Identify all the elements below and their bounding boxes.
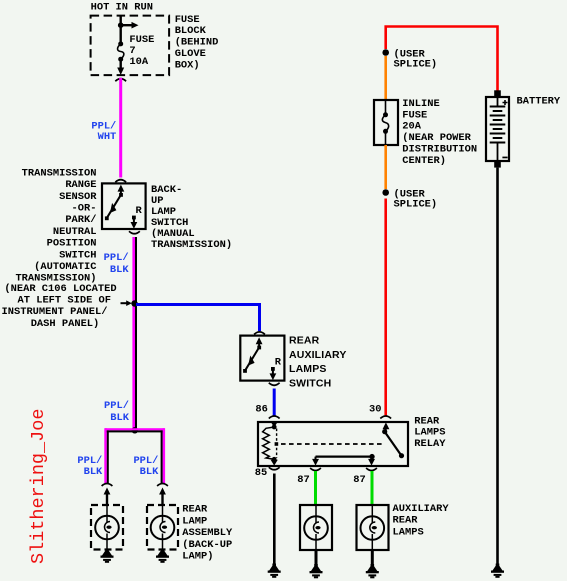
wire orange splice to fuse [384, 56, 387, 101]
svg-text:REAR: REAR [393, 515, 419, 527]
svg-text:SENSOR: SENSOR [59, 191, 97, 203]
svg-text:REAR: REAR [182, 504, 208, 516]
switch box back-up lamp switch [102, 183, 146, 229]
wire green pin 87 right [371, 471, 374, 505]
connector at fuse block output [115, 79, 126, 82]
ground aux right [366, 564, 379, 578]
svg-text:DASH PANEL): DASH PANEL) [31, 318, 100, 330]
node junction in fuse block [118, 22, 124, 28]
connector backup lamp left [102, 484, 113, 487]
svg-text:SWITCH: SWITCH [289, 377, 331, 389]
svg-text:30: 30 [369, 404, 381, 416]
svg-text:INSTRUMENT PANEL/: INSTRUMENT PANEL/ [2, 306, 108, 318]
switch R contact [132, 216, 136, 220]
connector at aux switch input [254, 332, 265, 335]
svg-text:(BEHIND: (BEHIND [175, 37, 219, 49]
svg-text:TRANSMISSION): TRANSMISSION) [151, 239, 232, 251]
svg-text:R: R [136, 205, 143, 217]
svg-text:-OR-: -OR- [72, 203, 97, 215]
switch common up arrow [120, 190, 122, 195]
switch R contact [271, 367, 275, 371]
connector backup lamp right [157, 484, 168, 487]
svg-text:R: R [275, 357, 282, 369]
relay box [258, 422, 408, 466]
wire PPL/WHT [119, 78, 122, 178]
svg-text:BATTERY: BATTERY [517, 96, 561, 108]
relay output bus [316, 456, 373, 458]
svg-text:Slithering_Joe: Slithering_Joe [28, 409, 49, 564]
svg-text:AT LEFT SIDE OF: AT LEFT SIDE OF [18, 295, 112, 307]
svg-text:SWITCH: SWITCH [59, 249, 96, 261]
svg-text:LAMP: LAMP [182, 515, 207, 527]
node user splice 1 [382, 49, 389, 56]
node user splice 2 [382, 189, 389, 196]
svg-text:RANGE: RANGE [65, 179, 96, 191]
battery plus [503, 100, 508, 105]
wire pin 85 to ground [273, 474, 276, 564]
wire blue branch [136, 305, 260, 332]
wire fuse to box bottom with down arrow [119, 59, 121, 68]
svg-text:BLK: BLK [110, 264, 129, 276]
fuse block dashed box [91, 16, 170, 76]
svg-text:NEUTRAL: NEUTRAL [53, 226, 97, 238]
wire branch arrow right [121, 24, 134, 26]
lamp bulb backup right [151, 516, 175, 540]
wire PPL/BLK vertical [132, 237, 135, 430]
svg-text:ASSEMBLY: ASSEMBLY [182, 527, 233, 539]
svg-text:POSITION: POSITION [47, 238, 97, 250]
node junction to aux switch [131, 300, 137, 306]
switch box rear auxiliary lamps switch [240, 336, 284, 381]
switch arm [245, 347, 259, 370]
svg-text:(BACK-UP: (BACK-UP [182, 539, 232, 551]
inline fuse element [385, 100, 387, 113]
lamp bulb backup left [95, 516, 119, 540]
svg-text:SPLICE): SPLICE) [394, 198, 438, 210]
wire feed inside fuse block [119, 16, 121, 42]
battery minus [502, 157, 507, 159]
lamp box backup right dashed [147, 505, 178, 550]
connector at switch input [115, 180, 126, 183]
connector at pin 86 [269, 416, 280, 419]
lamp bulb aux right [361, 516, 385, 540]
svg-text:AUXILIARY: AUXILIARY [393, 503, 450, 515]
fuse F7 element [118, 41, 123, 46]
connector at pin 87 right [366, 468, 377, 471]
svg-text:BLK: BLK [140, 466, 159, 478]
svg-text:CENTER): CENTER) [402, 155, 446, 167]
svg-text:AUXILIARY: AUXILIARY [289, 349, 347, 361]
lamp box aux left [300, 505, 332, 550]
connector at pin 87 left [310, 468, 321, 471]
node junction backup lamps [132, 427, 138, 433]
svg-text:LAMPS: LAMPS [414, 427, 445, 439]
svg-text:86: 86 [255, 404, 267, 416]
wire blue to pin 86 [273, 389, 276, 417]
svg-text:PPL/: PPL/ [104, 400, 129, 412]
ground for pin 85 [268, 564, 281, 578]
ground battery [491, 564, 504, 578]
svg-text:FUSE: FUSE [402, 109, 427, 121]
svg-text:TRANSMISSION: TRANSMISSION [22, 167, 97, 179]
ground aux left [310, 564, 323, 578]
svg-text:REAR: REAR [414, 415, 440, 427]
wire aux right lamp to ground [371, 550, 374, 564]
connector at pin 30 [380, 416, 391, 419]
inline fuse box [374, 100, 398, 145]
connector at pin 85 [269, 467, 280, 470]
lamp box aux right [357, 505, 389, 550]
svg-text:BLOCK: BLOCK [175, 25, 207, 37]
wire PPL/BLK right branch [163, 428, 166, 484]
svg-text:LAMPS: LAMPS [393, 526, 424, 538]
lamp box backup left dashed [91, 505, 123, 550]
svg-text:10A: 10A [129, 56, 148, 68]
wire battery to ground [496, 168, 499, 564]
wire orange fuse to splice 2 [384, 145, 387, 189]
svg-text:INLINE: INLINE [402, 98, 439, 110]
svg-text:LAMP): LAMP) [182, 551, 213, 563]
wire PPL/BLK horizontal branch [105, 428, 165, 430]
svg-text:BLK: BLK [110, 412, 129, 424]
switch arm [107, 195, 121, 218]
wire red to pin 30 [384, 199, 387, 417]
svg-text:20A: 20A [402, 121, 421, 133]
lamp bulb aux left [304, 516, 328, 540]
svg-text:(NEAR POWER: (NEAR POWER [402, 132, 471, 144]
ground backup left [101, 549, 114, 563]
svg-text:GLOVE: GLOVE [175, 48, 206, 60]
svg-text:BOX): BOX) [175, 60, 200, 72]
battery box [486, 97, 509, 161]
ground backup right [156, 549, 169, 563]
svg-text:(NEAR C106 LOCATED: (NEAR C106 LOCATED [4, 283, 116, 295]
svg-text:PARK/: PARK/ [65, 214, 96, 226]
svg-text:HOT IN RUN: HOT IN RUN [91, 2, 153, 14]
svg-text:PPL/: PPL/ [104, 252, 129, 264]
svg-text:WHT: WHT [98, 131, 117, 143]
relay coil [271, 422, 278, 428]
battery plates [497, 97, 499, 106]
connector at aux switch output [269, 383, 280, 386]
svg-text:7: 7 [129, 45, 135, 57]
svg-text:87: 87 [297, 474, 309, 486]
svg-text:SPLICE): SPLICE) [394, 58, 438, 70]
wire green pin 87 left [314, 471, 317, 505]
svg-text:87: 87 [353, 474, 365, 486]
svg-text:RELAY: RELAY [414, 438, 446, 450]
wire aux left lamp to ground [315, 550, 318, 564]
relay switch arm [382, 429, 387, 434]
svg-text:REAR: REAR [289, 335, 320, 347]
wire PPL/BLK left branch [104, 428, 107, 484]
battery terminal top [494, 90, 501, 97]
battery terminal bottom [494, 161, 501, 168]
svg-text:LAMPS: LAMPS [289, 363, 327, 375]
connector at switch output [129, 231, 140, 234]
relay dashed link [281, 443, 384, 445]
wire red battery top [386, 27, 498, 92]
svg-text:85: 85 [255, 467, 267, 479]
svg-text:BLK: BLK [84, 466, 103, 478]
svg-text:DISTRIBUTION: DISTRIBUTION [402, 144, 477, 156]
svg-text:FUSE: FUSE [175, 14, 200, 26]
switch common up arrow [258, 343, 260, 348]
svg-text:(AUTOMATIC: (AUTOMATIC [34, 261, 96, 273]
annotation arrow to node [121, 302, 128, 304]
